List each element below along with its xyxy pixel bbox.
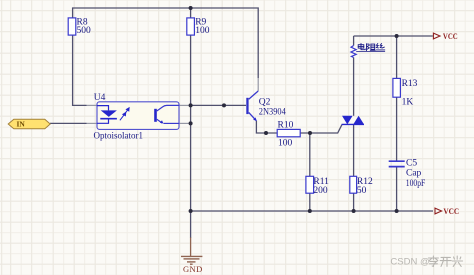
svg-text:200: 200 xyxy=(313,186,328,196)
svg-text:Q2: Q2 xyxy=(259,98,271,108)
svg-text:Cap: Cap xyxy=(406,169,422,179)
svg-text:Optoisolator1: Optoisolator1 xyxy=(94,132,144,142)
svg-text:IN: IN xyxy=(17,119,26,128)
svg-text:VCC: VCC xyxy=(443,206,459,216)
svg-text:CSDN @: CSDN @ xyxy=(390,256,429,267)
svg-text:U4: U4 xyxy=(94,93,106,103)
svg-text:2N3904: 2N3904 xyxy=(259,108,286,118)
svg-text:R10: R10 xyxy=(278,120,294,130)
svg-text:100: 100 xyxy=(278,139,293,149)
svg-text:500: 500 xyxy=(77,26,92,36)
svg-text:1K: 1K xyxy=(402,98,414,108)
svg-text:50: 50 xyxy=(357,186,367,196)
svg-text:100: 100 xyxy=(195,26,210,36)
svg-text:100pF: 100pF xyxy=(406,179,426,189)
svg-text:C5: C5 xyxy=(406,159,417,169)
svg-text:R13: R13 xyxy=(402,79,418,89)
svg-text:VCC: VCC xyxy=(443,31,458,41)
svg-text:GND: GND xyxy=(183,264,203,274)
